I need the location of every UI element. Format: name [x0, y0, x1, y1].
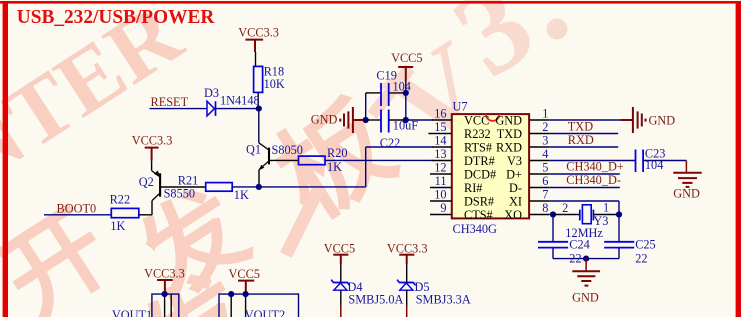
wire pin1 to ground [549, 119, 620, 121]
svg-text:VCC3.3: VCC3.3 [387, 241, 428, 255]
svg-text:D-: D- [509, 181, 522, 195]
svg-text:TXD: TXD [568, 120, 593, 134]
svg-text:1K: 1K [327, 160, 342, 174]
svg-text:VCC5: VCC5 [229, 267, 260, 281]
node B junction [256, 184, 262, 190]
svg-text:BOOT0: BOOT0 [57, 201, 97, 215]
wire pin3 RXD [549, 146, 618, 148]
svg-text:V3: V3 [507, 154, 522, 168]
node A junction [256, 106, 262, 112]
svg-text:SMBJ3.3A: SMBJ3.3A [416, 293, 471, 307]
U7 left pin stubs [428, 120, 451, 215]
node I junction (VOUT1) [162, 291, 168, 297]
wire VCC5 stem to node D [405, 81, 407, 93]
wire crystal left down to C24 [552, 215, 554, 242]
svg-text:12: 12 [434, 161, 446, 175]
svg-text:CH340_D+: CH340_D+ [566, 159, 624, 173]
svg-text:S8050: S8050 [272, 143, 303, 157]
U7 left pin names [464, 114, 496, 223]
svg-text:RESET: RESET [151, 95, 189, 109]
svg-text:2: 2 [562, 201, 568, 215]
svg-text:R21: R21 [178, 173, 199, 187]
svg-text:RXD: RXD [496, 141, 522, 155]
node G junction (XI/crystal) [616, 211, 622, 217]
resistor R22 [110, 193, 139, 233]
wire RESET to D3 [150, 108, 208, 110]
svg-text:R22: R22 [110, 193, 131, 207]
svg-text:GND: GND [495, 114, 522, 128]
wire node D down to node E [405, 93, 407, 120]
ground GND (below crystal, earth style) [572, 259, 600, 286]
wire D5 down [406, 290, 408, 317]
wire C24/C25 bottom bus [553, 248, 619, 259]
wire R18 bottom to node [257, 92, 259, 108]
svg-text:1: 1 [603, 200, 609, 214]
svg-text:VCC3.3: VCC3.3 [132, 133, 173, 147]
svg-text:U7: U7 [453, 100, 468, 114]
svg-text:CTS#: CTS# [464, 208, 493, 222]
svg-text:DTR#: DTR# [464, 154, 495, 168]
wire node A down to Q1 collector [258, 109, 260, 143]
svg-text:GND: GND [311, 112, 338, 126]
power VCC5 (above D4) [333, 255, 348, 265]
node E junction [403, 117, 409, 123]
svg-text:S8550: S8550 [164, 187, 195, 201]
svg-text:9: 9 [440, 201, 446, 215]
svg-text:5: 5 [542, 161, 548, 175]
power VCC5 (above C19) [398, 67, 413, 81]
wire cap rail [365, 93, 367, 120]
U7 right pin names [495, 114, 522, 223]
svg-text:10K: 10K [264, 77, 285, 91]
wire pin4 to C23 [549, 160, 635, 162]
svg-text:15: 15 [434, 120, 446, 134]
wire VCC3.3 to D5 [406, 264, 408, 282]
wire R22 to Q2 collector [139, 214, 152, 216]
svg-text:SMBJ5.0A: SMBJ5.0A [348, 293, 403, 307]
svg-text:14: 14 [434, 134, 446, 148]
node C junction (GND rail) [363, 117, 369, 123]
svg-text:1: 1 [542, 107, 548, 121]
capacitor C23 104 [636, 146, 666, 172]
svg-text:RI#: RI# [464, 181, 482, 195]
connector VOUT2 [219, 294, 299, 317]
svg-text:RTS#: RTS# [464, 141, 492, 155]
svg-text:DCD#: DCD# [464, 168, 496, 182]
svg-text:VCC3.3: VCC3.3 [238, 26, 279, 40]
wire BOOT0 to R22 [44, 214, 111, 216]
capacitor C22 10uF [366, 110, 419, 151]
svg-text:C22: C22 [380, 136, 401, 150]
svg-text:Q1: Q1 [246, 143, 261, 157]
resistor R21 [178, 173, 249, 201]
wire pin7 XI to crystal [549, 201, 619, 215]
wire pin8 XO to crystal [549, 214, 553, 216]
ground GND (left, at C19/C22) [340, 107, 365, 133]
node D junction [403, 90, 409, 96]
svg-text:VCC3.3: VCC3.3 [144, 266, 185, 280]
svg-text:13: 13 [434, 147, 446, 161]
svg-text:RXD: RXD [568, 133, 594, 147]
wire VCC3.3 to R18 [255, 52, 257, 66]
resistor R18 [254, 64, 285, 92]
svg-text:6: 6 [542, 174, 548, 188]
svg-text:XI: XI [509, 195, 522, 209]
wire node E to U7 pin16 [406, 119, 433, 121]
diode D5 SMBJ3.3A (TVS) [397, 280, 415, 291]
node H junction (bottom bus) [583, 256, 589, 262]
svg-text:10: 10 [434, 188, 446, 202]
wire D4 down [340, 290, 342, 317]
svg-text:4: 4 [542, 147, 548, 161]
svg-text:22: 22 [569, 251, 581, 265]
U7 right pin numbers [542, 107, 548, 216]
U7 left pin numbers [434, 107, 446, 216]
capacitor C25 22 [604, 238, 656, 266]
capacitor C24 22 [538, 238, 590, 266]
resistor R20 [299, 146, 348, 174]
svg-text:VOUT1: VOUT1 [112, 308, 152, 317]
power VCC5 (above VOUT2) [238, 281, 254, 295]
power VCC3.3 (top, above R18) [246, 40, 264, 52]
U7 right pin stubs [529, 120, 549, 215]
transistor Q1 S8050 [259, 143, 299, 187]
svg-text:1N4148: 1N4148 [220, 94, 260, 108]
connector VOUT1 [112, 294, 179, 317]
ground GND (right of pin1) [620, 107, 645, 133]
svg-text:C24: C24 [569, 238, 590, 252]
node K junction (VOUT2 VCC5) [243, 291, 249, 297]
node J junction (VOUT2 pin) [228, 291, 234, 297]
diode D3 1N4148 [204, 86, 260, 116]
svg-text:GND: GND [673, 186, 700, 200]
svg-text:XO: XO [504, 208, 522, 222]
transistor Q2 S8550 [152, 161, 206, 215]
svg-text:TXD: TXD [497, 127, 522, 141]
svg-text:22: 22 [635, 251, 647, 265]
diode D4 SMBJ5.0A (TVS) [331, 280, 349, 291]
power VCC3.3 (above D5) [399, 255, 414, 265]
svg-text:USB_232/USB/POWER: USB_232/USB/POWER [17, 7, 215, 28]
svg-text:R232: R232 [464, 127, 491, 141]
svg-text:GND: GND [649, 113, 676, 127]
svg-text:D3: D3 [204, 86, 219, 100]
wire pin5 CH340_D+ [549, 173, 620, 175]
svg-text:3: 3 [542, 134, 548, 148]
wire pin6 CH340_D- [549, 187, 620, 189]
svg-text:R20: R20 [327, 146, 348, 160]
ground GND (below C23, earth style) [673, 173, 701, 187]
svg-text:11: 11 [435, 174, 447, 188]
wire R20 to U7 pin13 [325, 159, 433, 161]
wire D3 to node A [216, 108, 259, 110]
wire C23 to ground [643, 161, 686, 173]
svg-text:GND: GND [572, 290, 599, 304]
crystal Y3 12MHz [553, 200, 619, 239]
node F junction (XO) [550, 211, 556, 217]
svg-text:VOUT2: VOUT2 [245, 308, 285, 317]
svg-text:VCC5: VCC5 [391, 51, 422, 65]
svg-text:D+: D+ [506, 168, 522, 182]
wire VCC5 to D4 [340, 264, 342, 282]
svg-text:8: 8 [542, 201, 548, 215]
svg-text:CH340G: CH340G [453, 222, 498, 236]
svg-text:DSR#: DSR# [464, 195, 494, 209]
capacitor C19 104 [366, 68, 411, 106]
svg-text:1K: 1K [110, 219, 125, 233]
svg-text:1K: 1K [234, 188, 249, 202]
op-amp U7 CH340G IC body [452, 100, 529, 237]
svg-text:16: 16 [434, 107, 446, 121]
svg-text:7: 7 [542, 188, 548, 202]
svg-text:Q2: Q2 [139, 175, 154, 189]
power VCC3.3 (above VOUT1) [157, 280, 173, 294]
wire pin2 TXD [549, 133, 618, 135]
wire R21 to node B to U7 pin14 [232, 147, 433, 187]
svg-text:CH340_D-: CH340_D- [566, 173, 621, 187]
svg-text:2: 2 [542, 120, 548, 134]
svg-text:VCC: VCC [464, 114, 489, 128]
wire crystal right down to C25 [618, 215, 620, 242]
svg-text:VCC5: VCC5 [324, 241, 355, 255]
power VCC3.3 (middle, above Q2) [145, 148, 159, 161]
svg-text:C25: C25 [635, 238, 656, 252]
